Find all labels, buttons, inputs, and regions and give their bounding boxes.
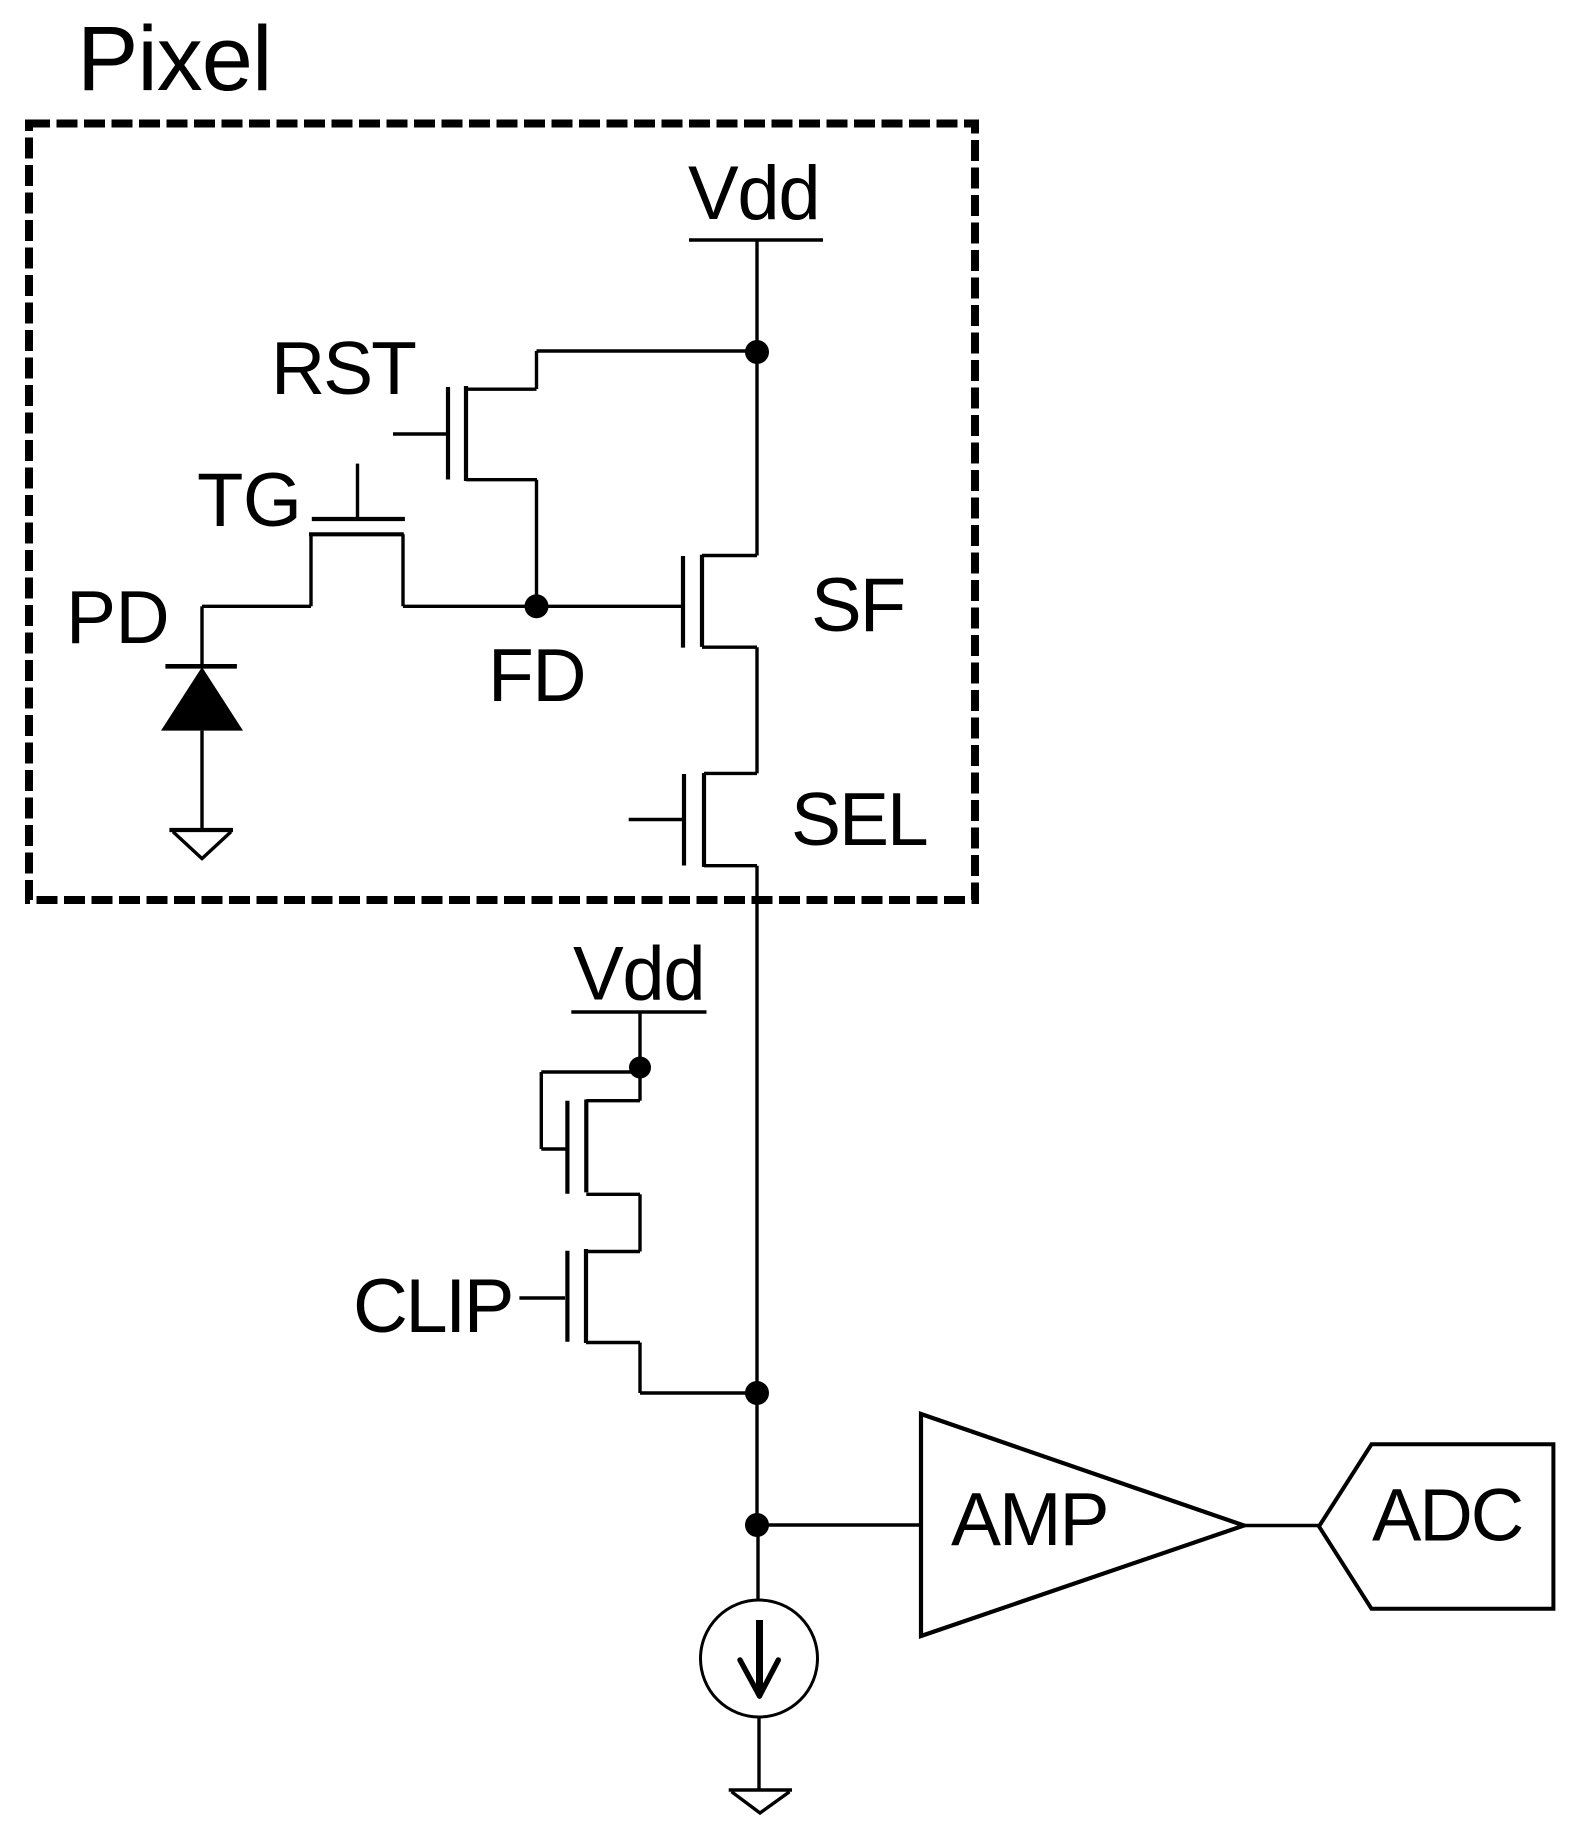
node FD junction dot bbox=[525, 594, 549, 618]
svg-text:FD: FD bbox=[488, 633, 585, 717]
node junction dot clip Vdd bbox=[629, 1057, 651, 1079]
photodiode PD label bbox=[66, 575, 169, 659]
wire column: SEL source down to AMP input node bbox=[755, 866, 758, 1525]
ground symbol below current source bbox=[729, 1790, 792, 1813]
transistor SF label bbox=[811, 563, 904, 648]
power rail Vdd (clip) bar bbox=[571, 1010, 706, 1014]
block ADC pentagon bbox=[1319, 1444, 1553, 1609]
node junction dot at Vdd / SF drain bbox=[745, 340, 769, 364]
wire AMP input bbox=[757, 1523, 923, 1526]
svg-text:TG: TG bbox=[197, 458, 302, 543]
wire SF source to SEL drain bbox=[755, 647, 758, 773]
node junction dot CLIP/column bbox=[745, 1381, 769, 1405]
svg-text:Vdd: Vdd bbox=[573, 932, 704, 1017]
power rail Vdd (clip) label bbox=[573, 932, 704, 1017]
wire column: Vdd node to SF drain bbox=[755, 352, 758, 556]
node junction dot AMP input bbox=[745, 1513, 769, 1537]
transistor SEL label bbox=[791, 777, 927, 861]
block ADC label bbox=[1372, 1474, 1522, 1557]
svg-text:SEL: SEL bbox=[791, 777, 927, 861]
wire RST drain to Vdd node bbox=[537, 351, 758, 389]
photodiode PD bbox=[161, 606, 243, 830]
op-amp AMP label bbox=[951, 1477, 1108, 1561]
transistor RST label bbox=[271, 326, 416, 410]
svg-text:Vdd: Vdd bbox=[688, 151, 819, 236]
svg-text:ADC: ADC bbox=[1372, 1474, 1522, 1557]
ground symbol below PD bbox=[169, 830, 233, 859]
wire PD to TG source bbox=[202, 605, 311, 608]
node FD label bbox=[488, 633, 585, 717]
svg-text:PD: PD bbox=[66, 575, 169, 659]
transistor TG bbox=[309, 464, 405, 607]
transistor M3 diode-connected (clip load) bbox=[567, 1068, 640, 1252]
svg-text:AMP: AMP bbox=[951, 1477, 1108, 1561]
wire FD net: TG drain to SF gate bbox=[403, 605, 681, 608]
transistor CLIP bbox=[519, 1249, 640, 1343]
wire AMP output to ADC bbox=[1244, 1524, 1319, 1527]
wire CLIP source to column bbox=[640, 1343, 757, 1394]
pixel boundary dashed box bbox=[29, 124, 975, 901]
pixel block label "Pixel" bbox=[77, 8, 271, 110]
power rail Vdd (pixel) bar bbox=[689, 238, 823, 242]
wire Vdd stub to node bbox=[755, 240, 758, 352]
op-amp AMP triangle bbox=[921, 1414, 1244, 1636]
svg-text:SF: SF bbox=[811, 563, 904, 648]
wire Vdd stub to clip node bbox=[638, 1012, 641, 1068]
current source I1 bbox=[701, 1525, 818, 1790]
wire M3 gate to drain (diode connection) bbox=[541, 1072, 645, 1149]
transistor CLIP label bbox=[353, 1264, 512, 1349]
transistor SEL bbox=[629, 773, 757, 867]
svg-text:RST: RST bbox=[271, 326, 416, 410]
svg-text:CLIP: CLIP bbox=[353, 1264, 512, 1349]
power rail Vdd (pixel) label bbox=[688, 151, 819, 236]
svg-text:Pixel: Pixel bbox=[77, 8, 271, 110]
transistor SF bbox=[683, 555, 757, 648]
wire RST source down to FD node bbox=[535, 480, 538, 607]
transistor RST bbox=[393, 386, 537, 481]
transistor TG label bbox=[197, 458, 302, 543]
